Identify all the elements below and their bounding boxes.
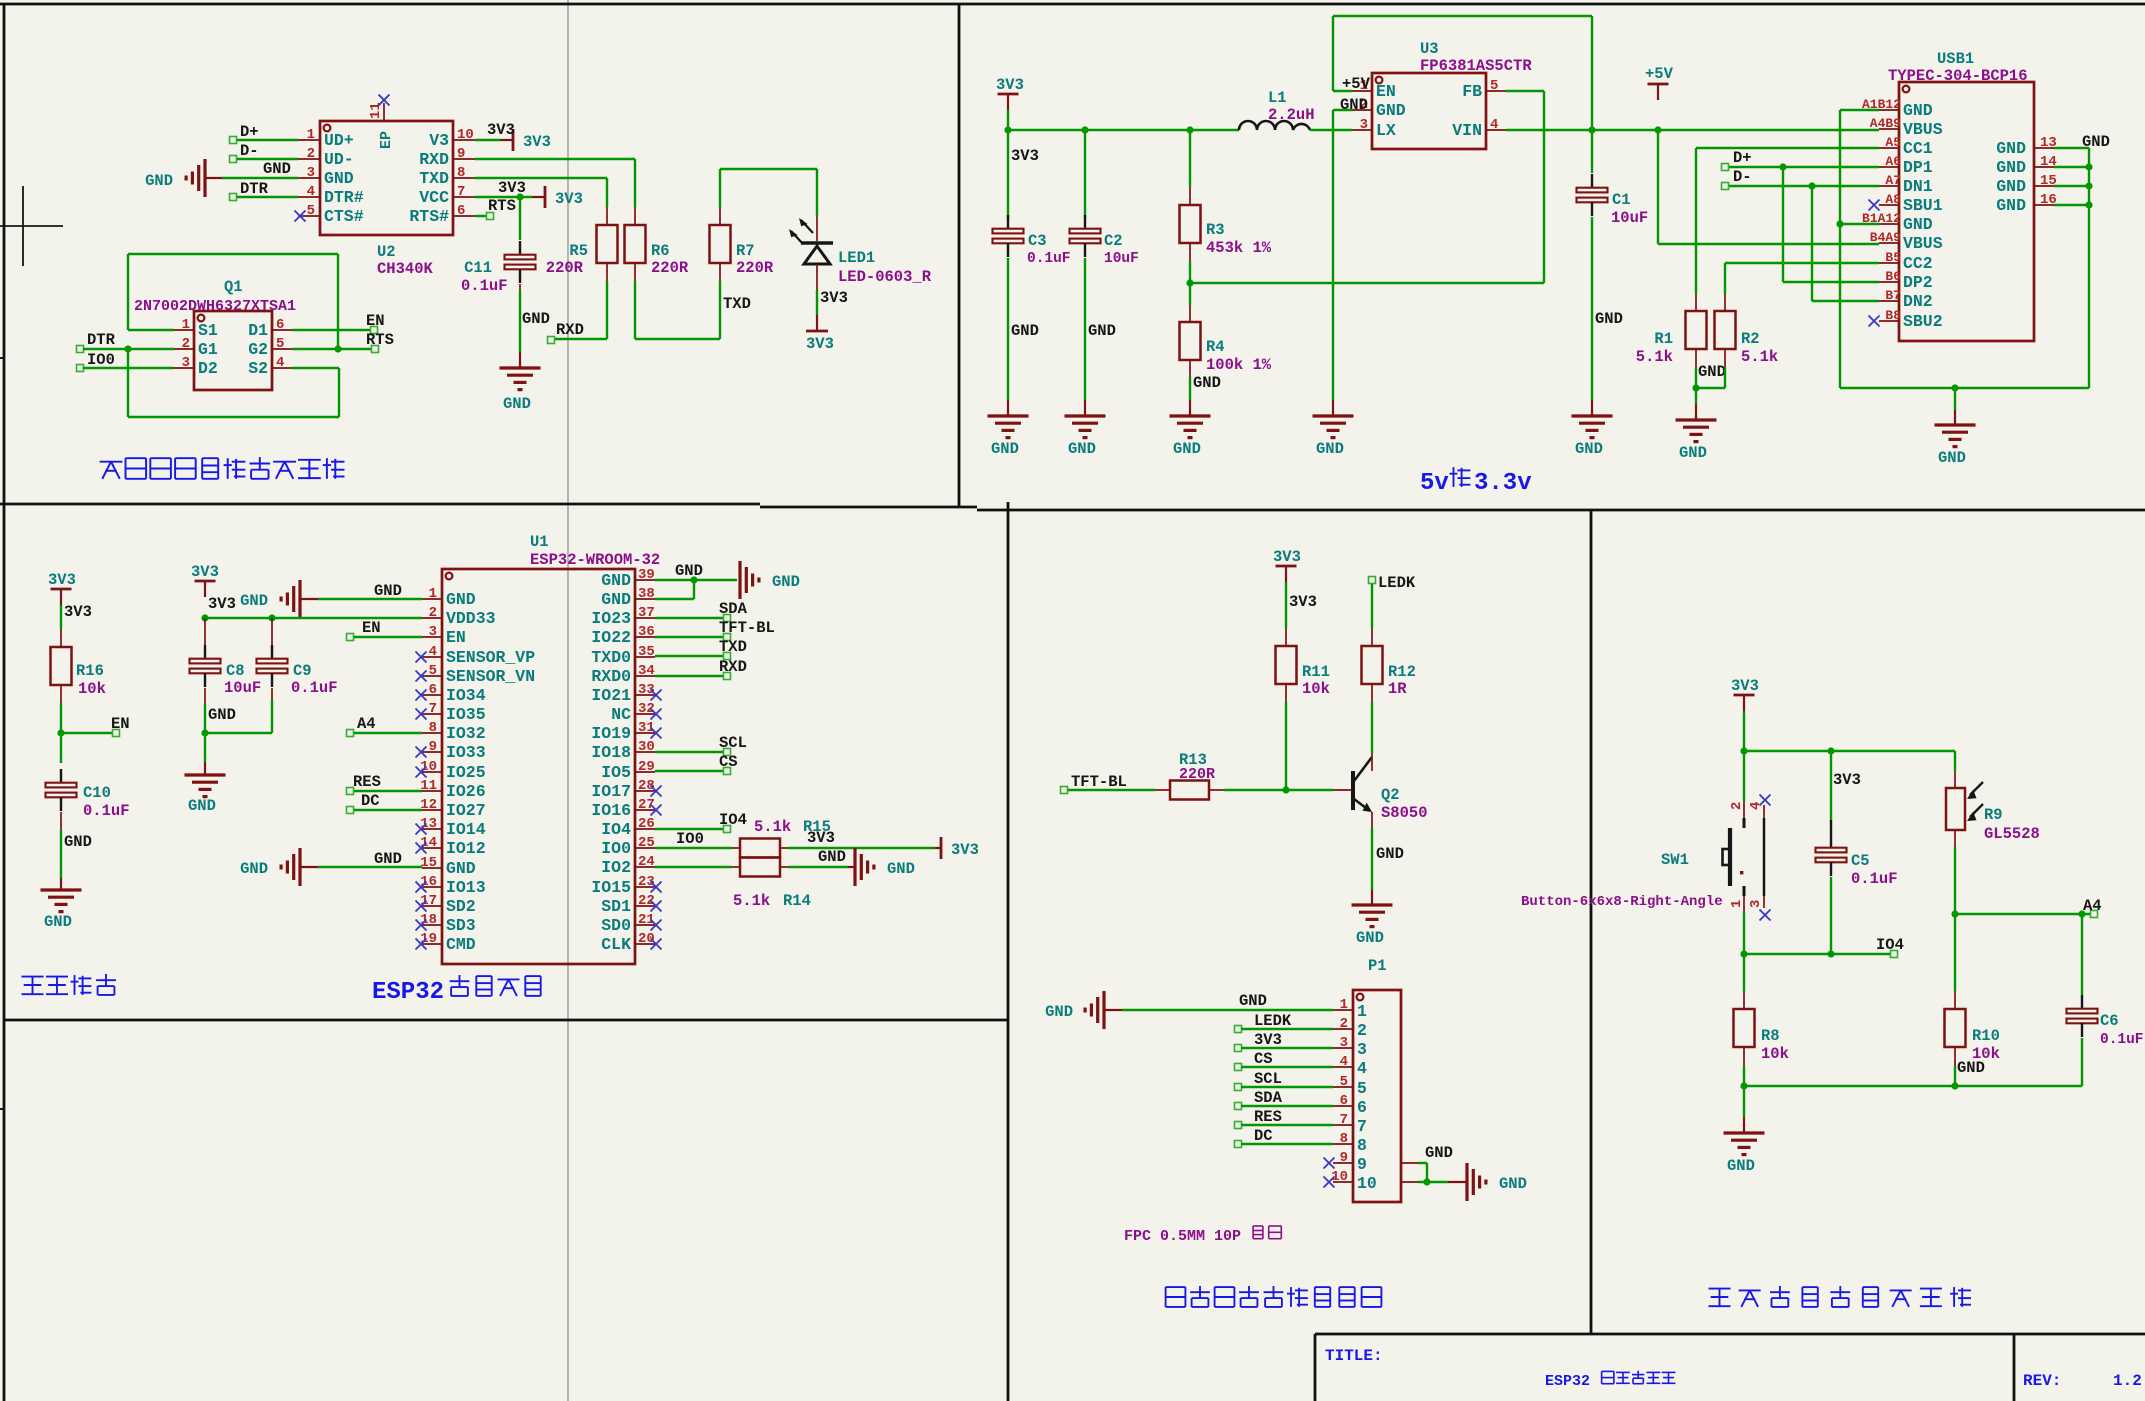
wire	[1811, 186, 1813, 301]
LED D1 symbol	[801, 241, 833, 245]
U1 pin 39 GND	[635, 579, 655, 581]
global label D-	[1722, 183, 1729, 190]
wire	[292, 367, 339, 369]
svg-text:DTR: DTR	[87, 331, 116, 349]
ground (R1 R2)	[1676, 418, 1717, 421]
svg-text:GND: GND	[1957, 1059, 1985, 1077]
U1 pin 34 RXD0	[635, 675, 655, 677]
no-connect U1 pin 31	[651, 728, 662, 739]
svg-text:11: 11	[368, 102, 384, 119]
USB1 pin B7 DN2	[1879, 300, 1899, 302]
power 3V3 (VDD33)	[195, 580, 216, 583]
svg-text:S1: S1	[198, 321, 218, 340]
wire	[1591, 130, 1593, 173]
junction	[1740, 747, 1747, 754]
svg-text:+5V: +5V	[1645, 65, 1674, 83]
wire CC1	[1696, 147, 1879, 149]
USB1 pin A7 DN1	[1879, 185, 1899, 187]
wire	[1591, 16, 1593, 130]
svg-text:R11: R11	[1302, 663, 1330, 681]
wire RXD	[655, 675, 724, 677]
svg-text:RTS#: RTS#	[409, 207, 449, 226]
svg-text:A7: A7	[1885, 173, 1901, 188]
svg-text:9: 9	[1340, 1150, 1348, 1166]
wire	[1543, 91, 1545, 283]
resistor R13	[1170, 781, 1209, 800]
svg-text:5: 5	[1357, 1079, 1367, 1098]
R3 bottom stub	[1189, 243, 1191, 261]
svg-text:SD1: SD1	[601, 897, 631, 916]
resistor R3	[1180, 205, 1201, 243]
sheet page boundary (gray)	[567, 0, 569, 1401]
Q1 pin 1 S1	[174, 329, 194, 331]
wire	[300, 598, 318, 600]
R3 top stub	[1189, 187, 1191, 205]
U1 pin 31 IO19	[635, 732, 655, 734]
junction	[2085, 163, 2092, 170]
R16 top stub	[60, 629, 62, 647]
svg-text:3: 3	[1748, 900, 1764, 908]
svg-text:4: 4	[276, 355, 284, 371]
no-connect SW1 pin3	[1760, 910, 1771, 921]
ground (U2 GND pin)	[203, 159, 206, 197]
wire	[1084, 258, 1086, 400]
svg-text:SD2: SD2	[446, 897, 476, 916]
svg-text:5: 5	[1340, 1074, 1348, 1090]
svg-text:GND: GND	[374, 850, 402, 868]
svg-text:SENSOR_VP: SENSOR_VP	[446, 648, 535, 667]
svg-text:GND: GND	[1376, 101, 1406, 120]
svg-text:RXD0: RXD0	[591, 667, 631, 686]
LED light arrows	[791, 231, 803, 244]
transistor Q2 S8050	[1333, 789, 1351, 791]
wire	[1657, 130, 1659, 244]
svg-text:IO32: IO32	[446, 724, 486, 743]
wire 3V3	[1241, 1047, 1333, 1049]
svg-text:B6: B6	[1885, 269, 1901, 284]
wire	[693, 580, 695, 599]
wire	[1448, 1181, 1467, 1183]
wire GND bus	[1840, 387, 2089, 389]
U2 pin 4 DTR#	[298, 196, 320, 198]
svg-text:2: 2	[1357, 1021, 1367, 1040]
svg-text:R5: R5	[569, 242, 588, 260]
U1 pin 2 VDD33	[422, 617, 442, 619]
junction	[2085, 201, 2092, 208]
svg-text:1R: 1R	[1388, 680, 1407, 698]
svg-text:6: 6	[276, 317, 284, 333]
U3 pin 5 FB	[1486, 90, 1506, 92]
svg-text:A4: A4	[357, 715, 376, 733]
svg-text:GND: GND	[1595, 310, 1623, 328]
svg-text:CS: CS	[1254, 1050, 1273, 1068]
svg-text:10uF: 10uF	[1104, 251, 1139, 267]
USB1 pin 16 GND	[2034, 204, 2054, 206]
wire	[1695, 404, 1697, 420]
svg-text:A5: A5	[1885, 135, 1901, 150]
resistor R2	[1715, 311, 1736, 349]
svg-text:DTR#: DTR#	[324, 188, 364, 207]
svg-text:GND: GND	[240, 860, 268, 878]
svg-text:1: 1	[429, 586, 437, 602]
svg-text:VBUS: VBUS	[1903, 234, 1943, 253]
wire FB	[1506, 90, 1544, 92]
sheet border top	[0, 3, 2145, 6]
wire	[237, 158, 298, 160]
capacitor C1	[1591, 174, 1593, 188]
svg-text:1: 1	[1357, 1002, 1367, 1021]
svg-text:GND: GND	[64, 833, 92, 851]
capacitor C8	[204, 645, 206, 659]
wire	[1285, 702, 1287, 790]
svg-text:GND: GND	[1376, 845, 1404, 863]
wire	[719, 281, 721, 339]
junction	[1779, 163, 1786, 170]
svg-text:GND: GND	[1679, 444, 1707, 462]
svg-text:100k 1%: 100k 1%	[1206, 356, 1272, 374]
svg-text:5: 5	[429, 663, 437, 679]
svg-text:VBUS: VBUS	[1903, 120, 1943, 139]
svg-text:GND: GND	[772, 573, 800, 591]
junction	[1951, 1082, 1958, 1089]
power 3V3 (U2 V3)	[512, 129, 515, 151]
power 3V3 (R15)	[935, 847, 941, 849]
svg-text:3V3: 3V3	[951, 841, 979, 859]
no-connect U1 pin 10	[416, 767, 427, 778]
global label DTR	[230, 194, 237, 201]
wire RTS	[475, 215, 487, 217]
svg-text:GND: GND	[1903, 215, 1933, 234]
svg-text:GND: GND	[887, 860, 915, 878]
U1 pin 38 GND	[635, 598, 655, 600]
U2 pin 9 RXD	[453, 158, 475, 160]
svg-text:TFT-BL: TFT-BL	[1071, 773, 1127, 791]
wire	[83, 348, 174, 350]
junction (Q2 base)	[1282, 786, 1289, 793]
global label DTR	[77, 346, 84, 353]
wire	[554, 338, 607, 340]
P1 pin 1	[1333, 1009, 1353, 1011]
svg-text:TXD: TXD	[719, 638, 747, 656]
U1 pin 30 IO18	[635, 751, 655, 753]
svg-text:IO15: IO15	[591, 878, 631, 897]
wire	[2054, 166, 2089, 168]
no-connect on U2 EP	[379, 95, 390, 106]
svg-text:3V3: 3V3	[806, 335, 834, 353]
wire	[1332, 400, 1334, 416]
resistor R1	[1686, 311, 1707, 349]
U1 pin 9 IO33	[422, 751, 442, 753]
capacitor C11	[519, 241, 521, 255]
svg-text:SENSOR_VN: SENSOR_VN	[446, 667, 535, 686]
resistor R6 top stub	[634, 207, 636, 225]
power 3V3 (button)	[1734, 694, 1755, 697]
wire	[606, 281, 608, 339]
global label LEDK	[1235, 1026, 1242, 1033]
wire DN1	[1728, 185, 1879, 187]
global label EN	[371, 327, 378, 334]
U1 pin 3 EN	[422, 636, 442, 638]
svg-text:A4: A4	[2083, 897, 2102, 915]
resistor R5 bottom stub	[606, 263, 608, 281]
wire VIN/+5V rail	[1506, 129, 1879, 131]
svg-text:IO25: IO25	[446, 763, 486, 782]
global label RXD	[548, 337, 555, 344]
svg-text:5.1k: 5.1k	[1741, 348, 1778, 366]
no-connect on SBU1	[1869, 200, 1880, 211]
U1 pin 12 IO27	[422, 809, 442, 811]
svg-text:TXD: TXD	[419, 169, 449, 188]
wire	[222, 177, 298, 179]
wire VDD33	[205, 617, 422, 619]
svg-text:0.1uF: 0.1uF	[1027, 251, 1071, 267]
capacitor C6	[2081, 995, 2083, 1009]
wire	[300, 866, 318, 868]
no-connect U1 pin 9	[416, 747, 427, 758]
svg-text:CC2: CC2	[1903, 254, 1933, 273]
svg-text:SW1: SW1	[1661, 851, 1689, 869]
svg-text:GND: GND	[818, 848, 846, 866]
wire	[1743, 913, 1745, 954]
LED1 top stub	[816, 216, 818, 241]
svg-text:LED1: LED1	[838, 249, 875, 267]
section title: 5v to 3.3v	[1420, 467, 1532, 497]
wire	[1591, 217, 1593, 400]
U3 pin 3 LX	[1352, 129, 1372, 131]
svg-text:6: 6	[457, 203, 465, 219]
svg-text:LEDK: LEDK	[1254, 1012, 1292, 1030]
U1 pin 13 IO14	[422, 828, 442, 830]
svg-text:4: 4	[429, 644, 437, 660]
svg-text:IO5: IO5	[601, 763, 631, 782]
global label RTS	[372, 346, 379, 353]
svg-text:TXD0: TXD0	[591, 648, 631, 667]
svg-text:9: 9	[1357, 1155, 1367, 1174]
R1 top stub	[1695, 294, 1697, 311]
global label RES	[347, 788, 354, 795]
wire	[1007, 258, 1009, 400]
op-amp U2 CH340K body	[320, 121, 453, 235]
wire EN-VIN loop top	[1333, 15, 1592, 17]
wire DC	[1241, 1143, 1333, 1145]
U1 pin 20 CLK	[635, 943, 655, 945]
wire	[237, 139, 298, 141]
svg-text:IO33: IO33	[446, 743, 486, 762]
no-connect P1 pin9	[1324, 1158, 1335, 1169]
U1 pin 22 SD1	[635, 905, 655, 907]
svg-text:D+: D+	[1733, 149, 1752, 167]
global label RTS	[487, 213, 494, 220]
svg-text:C2: C2	[1104, 232, 1123, 250]
wire	[1371, 584, 1373, 628]
wire	[1007, 130, 1009, 218]
no-connect U1 pin 21	[651, 920, 662, 931]
svg-text:8: 8	[1357, 1136, 1367, 1155]
svg-text:4: 4	[307, 184, 315, 200]
R14 left stub	[732, 866, 740, 868]
svg-text:1: 1	[182, 317, 190, 333]
global label DC	[347, 807, 354, 814]
svg-text:7: 7	[457, 184, 465, 200]
svg-text:IO0: IO0	[601, 839, 631, 858]
svg-text:U1: U1	[530, 533, 549, 551]
svg-text:TYPEC-304-BCP16: TYPEC-304-BCP16	[1888, 67, 2028, 85]
svg-text:UD-: UD-	[324, 150, 354, 169]
wire	[1285, 582, 1287, 628]
wire	[1418, 1181, 1448, 1183]
svg-text:GND: GND	[44, 913, 72, 931]
wire	[848, 866, 855, 868]
svg-text:7: 7	[1357, 1117, 1367, 1136]
wire A4	[1955, 913, 2091, 915]
sheet border vertical between bottom-middle and bottom-right sheets	[1590, 510, 1593, 1335]
no-connect U1 pin 17	[416, 901, 427, 912]
wire	[83, 367, 174, 369]
svg-text:GND: GND	[446, 859, 476, 878]
U1 pin 17 SD2	[422, 905, 442, 907]
R9 top stub	[1954, 771, 1956, 788]
ground (Q2)	[1352, 903, 1393, 906]
svg-text:GND: GND	[1316, 440, 1344, 458]
junction	[1827, 950, 1834, 957]
no-connect U1 pin 7	[416, 709, 427, 720]
svg-text:3V3: 3V3	[1289, 593, 1317, 611]
svg-text:D1: D1	[248, 321, 268, 340]
junction	[268, 614, 275, 621]
wire	[1954, 410, 1956, 425]
wire	[1839, 110, 1841, 388]
sheet border vertical between top-left and top-right sheets	[958, 4, 961, 507]
U3 pin 2 GND	[1352, 109, 1372, 111]
U1 pin 33 IO21	[635, 694, 655, 696]
connector P1 body	[1353, 990, 1401, 1202]
section title: screen interface and backlight driver	[1166, 1286, 1382, 1307]
wire	[1333, 90, 1352, 92]
junction (A4)	[1951, 910, 1958, 917]
global label IO0	[77, 365, 84, 372]
wire	[720, 168, 817, 170]
wire IO4	[655, 828, 724, 830]
global label D+	[230, 137, 237, 144]
wire TXD	[655, 655, 724, 657]
global label TXD	[724, 653, 731, 660]
wire VBUS2	[1658, 243, 1879, 245]
junction	[201, 614, 208, 621]
svg-text:26: 26	[638, 816, 655, 832]
svg-text:R10: R10	[1972, 1027, 2000, 1045]
wire DN2	[1812, 300, 1879, 302]
wire (pin38 GND)	[655, 598, 694, 600]
R11 top stub	[1285, 628, 1287, 646]
svg-text:GND: GND	[240, 592, 268, 610]
U1 pin 4 SENSOR_VP	[422, 656, 442, 658]
global label SCL	[1235, 1084, 1242, 1091]
R8 top stub	[1743, 991, 1745, 1009]
svg-text:5: 5	[276, 336, 284, 352]
wire RXD	[475, 158, 635, 160]
capacitor C2	[1084, 215, 1086, 229]
Q2 collector stub	[1371, 753, 1373, 771]
R13 left stub	[1155, 789, 1170, 791]
U1 pin 27 IO16	[635, 809, 655, 811]
svg-text:IO12: IO12	[446, 839, 486, 858]
ground (U1 pin1)	[298, 580, 301, 618]
svg-text:5: 5	[307, 203, 315, 219]
wire	[1954, 847, 1956, 914]
svg-text:2: 2	[429, 605, 437, 621]
svg-text:R12: R12	[1388, 663, 1416, 681]
no-connect U1 pin 13	[416, 824, 427, 835]
svg-text:R16: R16	[76, 662, 104, 680]
svg-text:39: 39	[638, 567, 655, 583]
svg-text:CS: CS	[719, 753, 738, 771]
global label LEDK	[1369, 577, 1376, 584]
junction (+5V)	[1654, 126, 1661, 133]
svg-text:0.1uF: 0.1uF	[291, 679, 338, 697]
wire SDA	[1241, 1105, 1333, 1107]
resistor R16	[51, 647, 72, 685]
wire	[606, 178, 608, 207]
svg-text:24: 24	[638, 854, 655, 870]
svg-text:GND: GND	[1575, 440, 1603, 458]
svg-text:15: 15	[420, 855, 437, 871]
svg-text:10: 10	[1357, 1174, 1377, 1193]
svg-text:36: 36	[638, 624, 655, 640]
U1 pin 23 IO15	[635, 886, 655, 888]
no-connect U1 pin 33	[651, 690, 662, 701]
svg-text:LX: LX	[1376, 121, 1396, 140]
wire	[1332, 16, 1334, 91]
junction (EN)	[57, 729, 64, 736]
svg-text:IO18: IO18	[591, 743, 631, 762]
wire	[1189, 261, 1191, 305]
wire (Q1 S1-D1 loop top)	[128, 253, 338, 255]
svg-text:SBU1: SBU1	[1903, 196, 1943, 215]
wire	[1695, 148, 1697, 294]
svg-text:220R: 220R	[1179, 766, 1215, 783]
wire EN	[292, 329, 371, 331]
global label EN	[113, 730, 120, 737]
svg-text:LED-0603_R: LED-0603_R	[838, 268, 932, 286]
inductor L1	[1239, 121, 1310, 130]
svg-text:IO16: IO16	[591, 801, 631, 820]
wire	[1696, 387, 1725, 389]
svg-text:10: 10	[457, 127, 474, 143]
no-connect U1 pin 19	[416, 939, 427, 950]
svg-text:EN: EN	[366, 312, 385, 330]
wire	[1371, 828, 1373, 890]
wire L1 to LX	[1310, 129, 1352, 131]
svg-text:0.1uF: 0.1uF	[2100, 1032, 2144, 1048]
svg-text:C5: C5	[1851, 852, 1870, 870]
power 3V3 (R11)	[1276, 565, 1297, 568]
svg-text:Q1: Q1	[224, 278, 243, 296]
svg-text:RTS: RTS	[366, 331, 394, 349]
wire	[60, 878, 62, 890]
svg-text:SD0: SD0	[601, 916, 631, 935]
wire	[354, 809, 422, 811]
wire	[354, 732, 422, 734]
R11 bottom stub	[1285, 684, 1287, 702]
junction	[1836, 220, 1843, 227]
junction (R3)	[1186, 126, 1193, 133]
svg-text:DC: DC	[361, 792, 380, 810]
global label D-	[230, 156, 237, 163]
capacitor C5	[1830, 834, 1832, 848]
title block left border	[1314, 1334, 1317, 1401]
U2 pin 3 GND	[298, 177, 320, 179]
svg-text:GND: GND	[1425, 1144, 1453, 1162]
